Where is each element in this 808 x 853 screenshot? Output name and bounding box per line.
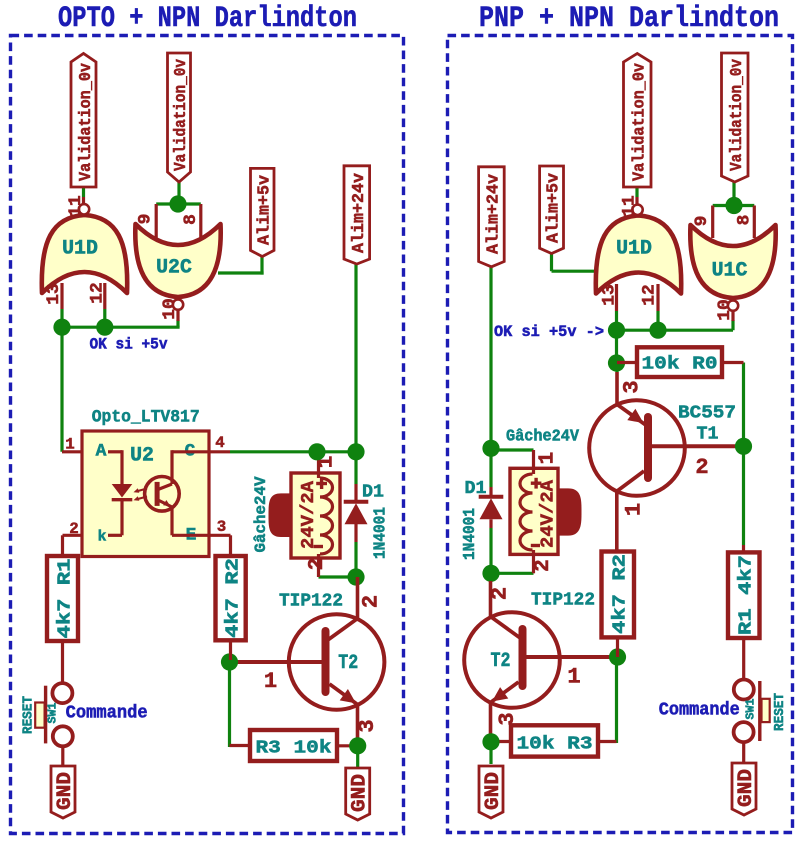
svg-text:Commande: Commande: [659, 700, 740, 721]
svg-text:OK si +5v: OK si +5v: [90, 336, 168, 354]
svg-text:2: 2: [69, 520, 78, 538]
svg-text:Alim+24v: Alim+24v: [350, 173, 369, 253]
svg-text:k: k: [98, 530, 107, 546]
svg-text:2: 2: [488, 587, 513, 600]
svg-text:4k7 R2: 4k7 R2: [609, 554, 631, 634]
svg-text:GND: GND: [53, 772, 76, 810]
svg-text:1N4001: 1N4001: [461, 508, 480, 560]
svg-text:1N4001: 1N4001: [372, 507, 391, 559]
svg-text:3: 3: [217, 518, 226, 536]
svg-text:R3 10k: R3 10k: [256, 737, 332, 759]
svg-text:1: 1: [264, 669, 277, 694]
svg-text:13: 13: [44, 283, 64, 304]
svg-text:U2: U2: [130, 444, 154, 467]
svg-text:10k R3: 10k R3: [517, 733, 593, 755]
svg-text:SW1: SW1: [745, 699, 758, 720]
svg-text:D1: D1: [362, 481, 384, 503]
svg-text:Validation_0v: Validation_0v: [172, 59, 191, 171]
svg-text:TIP122: TIP122: [279, 590, 343, 612]
svg-text:8: 8: [181, 214, 201, 225]
svg-text:10: 10: [160, 298, 180, 319]
svg-text:4k7 R2: 4k7 R2: [222, 558, 244, 638]
svg-text:3: 3: [620, 380, 645, 393]
svg-text:Alim+5v: Alim+5v: [255, 175, 274, 245]
svg-text:9: 9: [692, 216, 712, 227]
svg-text:2: 2: [359, 595, 384, 608]
svg-text:12: 12: [640, 284, 660, 305]
svg-text:Opto_LTV817: Opto_LTV817: [92, 408, 200, 428]
svg-text:1: 1: [622, 503, 647, 516]
svg-text:GND: GND: [734, 769, 757, 807]
svg-text:GND: GND: [481, 772, 504, 810]
svg-text:12: 12: [88, 282, 108, 303]
svg-text:OPTO + NPN Darlindton: OPTO + NPN Darlindton: [58, 2, 357, 35]
svg-text:Validation_0v: Validation_0v: [77, 63, 96, 181]
svg-text:Commande: Commande: [66, 703, 148, 724]
svg-text:T2: T2: [338, 651, 358, 674]
svg-text:A: A: [96, 442, 107, 462]
svg-text:T1: T1: [697, 423, 719, 445]
svg-text:2: 2: [306, 558, 329, 571]
svg-text:R1 4k7: R1 4k7: [735, 555, 757, 635]
svg-text:OK si +5v ->: OK si +5v ->: [494, 323, 604, 341]
svg-text:T2: T2: [491, 649, 511, 672]
svg-text:3: 3: [355, 719, 380, 732]
svg-text:8: 8: [734, 215, 754, 226]
svg-text:Gâche24V: Gâche24V: [506, 427, 579, 446]
svg-text:Alim+24v: Alim+24v: [485, 174, 504, 254]
svg-text:4: 4: [215, 434, 225, 452]
svg-text:4k7 R1: 4k7 R1: [54, 559, 76, 639]
svg-text:PNP + NPN Darlindton: PNP + NPN Darlindton: [479, 2, 779, 35]
svg-text:Alim+5v: Alim+5v: [544, 173, 563, 243]
svg-text:9: 9: [135, 214, 155, 225]
svg-text:Gâche24V: Gâche24V: [252, 476, 270, 553]
svg-text:1: 1: [65, 436, 74, 454]
svg-text:D1: D1: [465, 477, 487, 499]
svg-text:1: 1: [537, 452, 560, 465]
svg-text:10: 10: [715, 299, 735, 320]
svg-text:10k R0: 10k R0: [642, 353, 718, 375]
svg-text:13: 13: [600, 284, 620, 305]
svg-text:11: 11: [66, 195, 86, 216]
svg-text:TIP122: TIP122: [531, 589, 595, 611]
svg-text:2: 2: [695, 455, 708, 480]
svg-text:U1D: U1D: [616, 237, 652, 260]
svg-text:RESET: RESET: [772, 693, 788, 731]
svg-text:BC557: BC557: [678, 402, 736, 424]
svg-text:Validation_0v: Validation_0v: [631, 63, 650, 181]
svg-text:U2C: U2C: [156, 256, 192, 279]
svg-text:24V/2A: 24V/2A: [537, 479, 559, 548]
svg-text:SW1: SW1: [47, 703, 60, 724]
svg-text:Validation_0v: Validation_0v: [728, 59, 747, 171]
svg-text:1: 1: [567, 665, 580, 690]
svg-text:U1D: U1D: [62, 237, 98, 260]
svg-text:GND: GND: [348, 774, 371, 812]
svg-text:24V/2A: 24V/2A: [297, 480, 319, 549]
svg-text:RESET: RESET: [21, 696, 37, 734]
svg-text:2: 2: [532, 559, 555, 572]
svg-text:U1C: U1C: [712, 259, 748, 282]
svg-text:11: 11: [620, 195, 640, 216]
